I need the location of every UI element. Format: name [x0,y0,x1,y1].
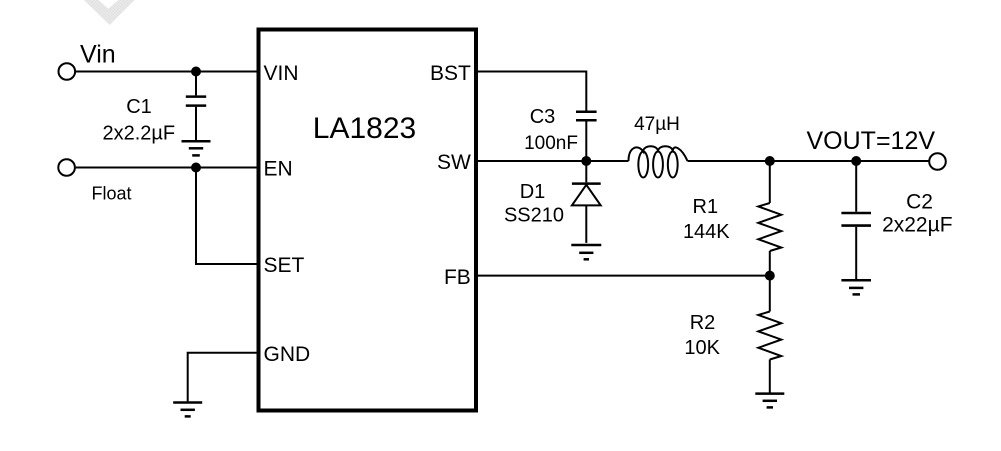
svg-text:SS210: SS210 [504,205,564,227]
svg-text:C2: C2 [906,191,933,214]
svg-text:100nF: 100nF [524,133,578,154]
svg-text:Float: Float [92,184,132,204]
terminal VOUT [929,153,946,170]
svg-text:SET: SET [264,254,305,277]
svg-text:C1: C1 [126,96,152,118]
ground C2 [841,280,871,294]
wire Float to EN pin [76,167,259,169]
wire EN to SET [196,168,259,265]
diode D1 [572,161,601,243]
wire FB pin [476,275,770,277]
inductor L1 47µH [629,146,688,177]
ground D1 [571,245,601,259]
svg-text:VOUT=12V: VOUT=12V [807,127,936,155]
capacitor C1 [186,72,206,141]
IC U1 LA1823 body [259,30,477,411]
terminal Vin [59,63,76,80]
wire SW pin to inductor [476,160,629,162]
svg-text:C3: C3 [530,106,556,128]
svg-text:Vin: Vin [80,41,116,69]
ground GND pin [173,403,202,417]
svg-text:R1: R1 [693,196,719,218]
svg-text:EN: EN [264,158,293,181]
junction node FB [765,271,775,281]
wire Vin to VIN pin [76,71,259,73]
svg-text:SW: SW [437,151,471,174]
watermark chevron [84,0,135,25]
terminal Float [58,159,75,176]
svg-text:LA1823: LA1823 [313,112,416,145]
svg-text:2x22µF: 2x22µF [882,214,952,237]
wire GND pin [188,353,259,402]
wire BST pin to C3 [476,72,586,111]
ground C1 [182,141,211,155]
junction node SW [581,156,591,166]
ground R2 [755,394,784,408]
capacitor C3 [576,112,597,161]
junction node EN [191,163,201,173]
junction node C2 top [851,156,861,166]
svg-text:BST: BST [430,62,471,85]
svg-text:2x2.2µF: 2x2.2µF [102,122,175,144]
svg-text:10K: 10K [684,337,720,359]
svg-text:GND: GND [264,343,311,366]
junction node VIN [191,67,201,77]
svg-text:FB: FB [444,266,471,289]
wire inductor to VOUT [688,160,930,162]
svg-text:144K: 144K [683,221,730,243]
svg-text:D1: D1 [520,181,546,203]
junction node R1 top [765,156,775,166]
svg-text:47µH: 47µH [634,114,680,135]
resistor R2 [758,276,781,393]
svg-text:R2: R2 [690,312,716,334]
resistor R1 [758,161,781,276]
capacitor C2 [841,161,871,279]
svg-text:VIN: VIN [264,62,299,85]
